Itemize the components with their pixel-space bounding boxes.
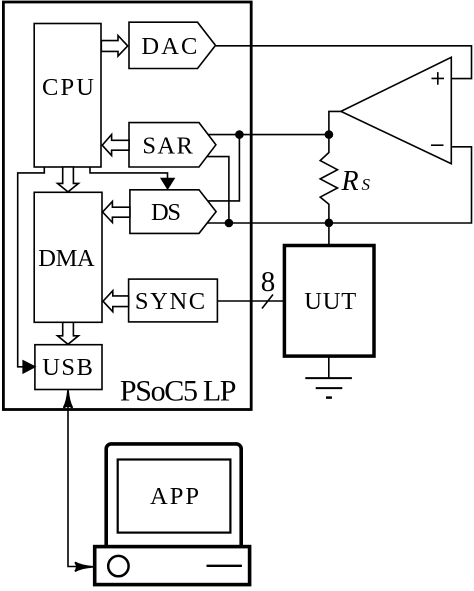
node junction dot 1 <box>235 130 244 139</box>
ground bar 2 <box>316 387 343 389</box>
svg-text:DS: DS <box>151 199 181 226</box>
svg-text:APP: APP <box>150 483 199 510</box>
node junction dot 4 <box>325 219 334 228</box>
block USB <box>35 345 102 390</box>
block SYNC <box>129 279 218 322</box>
block CPU <box>34 24 101 168</box>
bus arrow CPU to DAC <box>101 36 127 57</box>
computer power button <box>108 556 128 576</box>
bus arrow DMA to USB <box>58 322 79 344</box>
svg-text:DMA: DMA <box>38 245 95 272</box>
svg-text:SAR: SAR <box>142 132 193 159</box>
outer box PSoC5 LP <box>3 2 251 410</box>
block DS <box>130 190 216 234</box>
ground bar 3 <box>326 396 332 399</box>
bus arrow CPU to DMA <box>58 167 79 192</box>
arrowhead into USB bottom <box>64 390 73 408</box>
bus arrow DS to DMA <box>103 201 130 222</box>
wire op-amp output <box>329 111 341 134</box>
svg-text:PSoC5 LP: PSoC5 LP <box>120 375 237 408</box>
bus arrow SAR to CPU <box>102 135 129 156</box>
svg-text:CPU: CPU <box>42 74 94 101</box>
block UUT <box>284 246 374 357</box>
arrowhead into PC <box>75 562 93 571</box>
sense net wire DS to op-amp - input <box>207 147 471 223</box>
wire USB to PC <box>68 397 86 567</box>
svg-text:8: 8 <box>261 266 276 298</box>
computer screen <box>118 460 231 533</box>
svg-text:S: S <box>362 175 371 194</box>
wire node A down to DS input <box>208 135 240 201</box>
svg-text:SYNC: SYNC <box>135 288 205 315</box>
arrowhead into DS <box>161 179 174 189</box>
computer drive slot <box>207 565 242 567</box>
wire SAR lower to sense net <box>207 157 229 223</box>
op-amp U1 <box>341 57 451 163</box>
block SAR <box>129 123 216 167</box>
ground bar 1 <box>305 377 352 379</box>
wire SAR to node A <box>208 134 329 136</box>
block DMA <box>34 192 102 322</box>
wire SYNC to UUT <box>217 300 284 302</box>
svg-text:R: R <box>341 166 359 197</box>
op-amp - pin mark <box>431 144 444 146</box>
node junction dot 2 <box>325 130 334 139</box>
op-amp + pin mark <box>432 72 445 85</box>
block DAC <box>129 22 216 68</box>
svg-text:DAC: DAC <box>141 33 197 60</box>
node junction dot 3 <box>225 219 234 228</box>
arrowhead into USB left <box>23 361 35 373</box>
svg-text:USB: USB <box>42 354 93 381</box>
computer monitor <box>106 444 241 550</box>
wire DAC to op-amp + input <box>216 46 472 79</box>
bus arrow SYNC to DMA <box>103 291 129 312</box>
resistor RS <box>320 135 337 246</box>
bus slash <box>262 295 273 309</box>
wire CPU to USB <box>18 167 45 367</box>
ground lead <box>328 356 330 378</box>
svg-text:UUT: UUT <box>304 288 356 315</box>
computer base unit <box>95 547 250 585</box>
wire CPU to DS <box>90 167 168 181</box>
